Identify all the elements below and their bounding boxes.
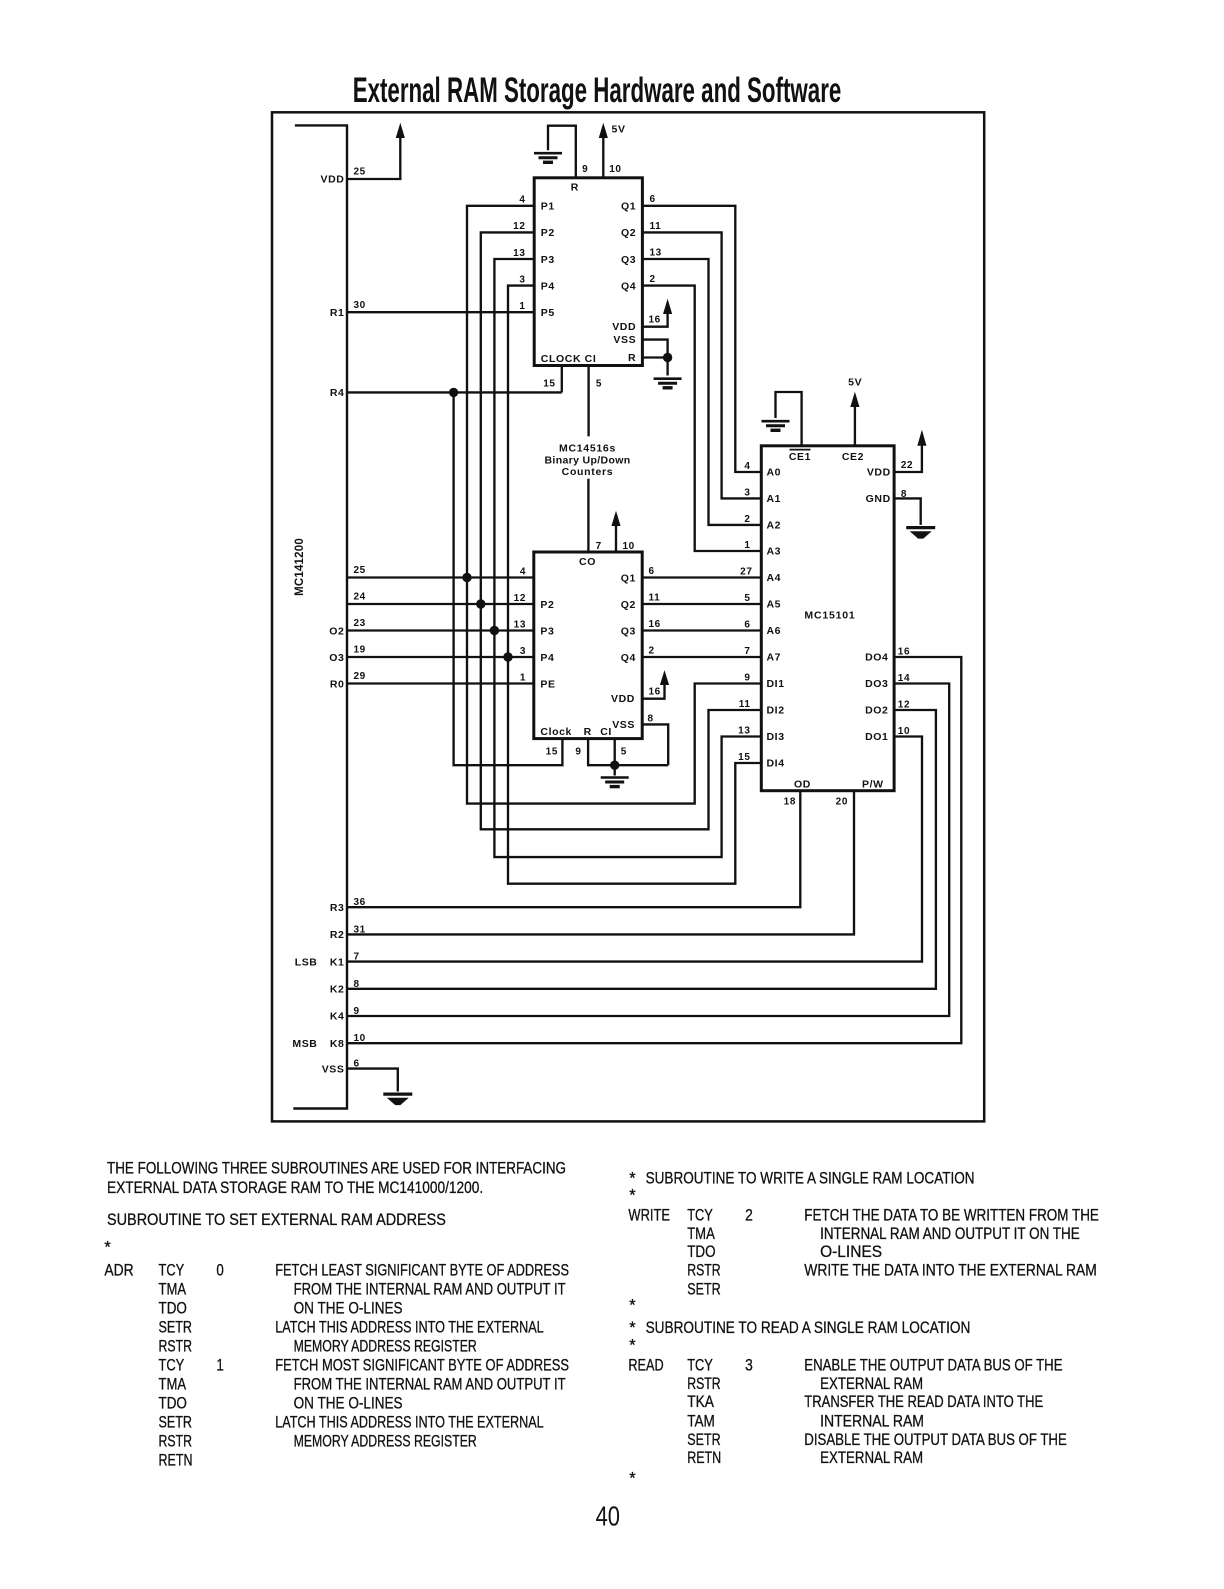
U1 bottom pin numbers 15 5 — [543, 379, 602, 390]
ground at U1 R/VSS — [654, 379, 682, 388]
svg-text:13: 13 — [650, 247, 662, 258]
svg-text:6: 6 — [744, 620, 750, 631]
wire U3 DO4 to K8 rail — [347, 657, 961, 1043]
VSS rail pin 6 to ground — [347, 1069, 398, 1092]
U3 VDD pin 22 wire — [894, 445, 922, 472]
junction O-line at rail — [503, 652, 512, 661]
svg-text:CE1: CE1 — [789, 451, 811, 463]
U1 VSS wire to ground node — [642, 340, 667, 358]
VDD rail from MCU pin 25 — [347, 138, 400, 180]
svg-text:SUBROUTINE TO WRITE A SINGLE R: SUBROUTINE TO WRITE A SINGLE RAM LOCATIO… — [646, 1169, 975, 1187]
svg-text:P3: P3 — [540, 625, 554, 637]
svg-text:4: 4 — [744, 461, 750, 472]
svg-text:CO: CO — [579, 556, 596, 568]
U3 CE1 wire to ground — [776, 392, 802, 446]
svg-text:K1: K1 — [330, 956, 345, 968]
svg-text:A0: A0 — [767, 467, 782, 479]
wire U1 Q3 to U3 A2 — [642, 259, 761, 525]
svg-text:11: 11 — [650, 221, 662, 232]
svg-text:29: 29 — [354, 671, 366, 682]
svg-text:8: 8 — [354, 979, 360, 990]
svg-text:READ: READ — [628, 1357, 663, 1375]
wire U3 DO3 to K4 rail — [347, 684, 949, 1017]
svg-text:TDO: TDO — [687, 1243, 715, 1261]
svg-text:16: 16 — [649, 619, 661, 630]
svg-text:1: 1 — [520, 672, 526, 683]
svg-text:20: 20 — [836, 796, 848, 807]
svg-text:THE FOLLOWING THREE SUBROUTINE: THE FOLLOWING THREE SUBROUTINES ARE USED… — [107, 1160, 566, 1178]
svg-text:A6: A6 — [767, 625, 782, 637]
U1 pin labels — [541, 181, 636, 365]
svg-text:7: 7 — [744, 646, 750, 657]
svg-text:DO2: DO2 — [865, 705, 888, 717]
svg-text:O-LINES: O-LINES — [820, 1243, 882, 1261]
svg-text:11: 11 — [739, 699, 751, 710]
U3 pin labels — [767, 450, 891, 791]
svg-text:19: 19 — [354, 645, 366, 656]
U2 VDD pin 16 wire — [642, 685, 664, 699]
svg-text:VDD: VDD — [321, 174, 345, 186]
R4 branch to U2 clock pin 15 — [454, 392, 563, 765]
net O-line 23: U1 P3 / U2 P3 / U3 DI3 — [494, 259, 761, 857]
svg-text:12: 12 — [514, 593, 526, 604]
svg-text:TMA: TMA — [159, 1376, 187, 1394]
junction R4 clock branch — [449, 388, 458, 397]
wire U1 clock pin 15 to R4 rail — [561, 366, 563, 393]
svg-text:EXTERNAL RAM: EXTERNAL RAM — [820, 1375, 923, 1393]
svg-text:TCY: TCY — [159, 1262, 185, 1280]
5V arrow at U2 pin 10 — [612, 513, 620, 526]
svg-text:TDO: TDO — [159, 1395, 187, 1413]
svg-text:EXTERNAL RAM: EXTERNAL RAM — [820, 1449, 923, 1467]
svg-text:10: 10 — [609, 164, 621, 175]
svg-text:A7: A7 — [767, 652, 782, 664]
wire U2 Q3 to U3 A6 — [642, 629, 761, 631]
VDD arrow at MCU pin 25 — [396, 125, 404, 138]
wire U3 DO1 to K1 rail — [347, 737, 922, 962]
svg-text:18: 18 — [784, 796, 796, 807]
svg-text:Binary Up/Down: Binary Up/Down — [545, 454, 631, 466]
wire U1 Q4 to U3 A3 — [642, 286, 761, 551]
MCU MC141200 port bracket — [293, 125, 347, 1108]
svg-text:23: 23 — [354, 618, 366, 629]
U1 reset pin 9 wire to ground — [548, 126, 576, 178]
svg-text:16: 16 — [649, 687, 661, 698]
svg-text:Q2: Q2 — [621, 227, 636, 239]
svg-text:*: * — [629, 1169, 636, 1187]
svg-text:13: 13 — [738, 726, 750, 737]
svg-text:MC141200: MC141200 — [294, 538, 306, 596]
label K2 pin 8 — [330, 979, 360, 996]
svg-text:9: 9 — [575, 746, 581, 757]
svg-text:15: 15 — [543, 379, 555, 390]
svg-text:FROM THE INTERNAL RAM AND OUTP: FROM THE INTERNAL RAM AND OUTPUT IT — [294, 1281, 566, 1299]
U3 top/bottom pin numbers 22 8 18 20 — [784, 460, 914, 807]
svg-text:16: 16 — [649, 315, 661, 326]
svg-text:MSB: MSB — [292, 1038, 317, 1050]
svg-text:SUBROUTINE TO SET EXTERNAL RAM: SUBROUTINE TO SET EXTERNAL RAM ADDRESS — [107, 1211, 446, 1229]
svg-text:27: 27 — [740, 567, 752, 578]
svg-text:5V: 5V — [848, 377, 862, 389]
svg-text:Counters: Counters — [562, 466, 614, 478]
schematic outer border frame — [272, 112, 984, 1121]
svg-text:2: 2 — [744, 514, 750, 525]
svg-text:9: 9 — [354, 1006, 360, 1017]
U2 R pin 9 and ground bus — [588, 739, 668, 766]
software listing text — [104, 1160, 1099, 1488]
svg-text:SETR: SETR — [159, 1414, 193, 1432]
svg-text:DI4: DI4 — [767, 758, 785, 770]
svg-text:13: 13 — [514, 619, 526, 630]
svg-text:R4: R4 — [330, 387, 345, 399]
svg-text:RSTR: RSTR — [159, 1433, 193, 1451]
svg-text:RSTR: RSTR — [159, 1338, 193, 1356]
label R2 pin 31 — [330, 924, 366, 941]
label K4 pin 9 — [330, 1006, 360, 1023]
svg-text:R2: R2 — [330, 929, 345, 941]
svg-text:8: 8 — [648, 714, 654, 725]
svg-text:INTERNAL RAM: INTERNAL RAM — [820, 1412, 924, 1430]
ground at U2 — [601, 778, 629, 787]
svg-text:RETN: RETN — [687, 1449, 721, 1467]
svg-text:EXTERNAL DATA STORAGE RAM TO T: EXTERNAL DATA STORAGE RAM TO THE MC14100… — [107, 1179, 483, 1197]
svg-text:ADR: ADR — [104, 1262, 133, 1280]
svg-text:4: 4 — [520, 566, 526, 577]
U2 pin labels — [540, 556, 636, 738]
svg-text:Q3: Q3 — [621, 254, 636, 266]
svg-text:RSTR: RSTR — [687, 1375, 721, 1393]
svg-text:PE: PE — [540, 678, 555, 690]
svg-text:VSS: VSS — [612, 719, 635, 731]
svg-text:*: * — [629, 1336, 636, 1354]
label R3 pin 36 — [330, 897, 366, 914]
svg-text:Clock: Clock — [540, 726, 572, 738]
svg-text:DI2: DI2 — [767, 705, 785, 717]
O-line rail pin 29 (R0) — [347, 682, 534, 684]
svg-text:24: 24 — [354, 592, 366, 603]
svg-text:CI: CI — [600, 726, 612, 738]
svg-text:*: * — [104, 1239, 111, 1257]
5V arrow at U3 CE2 — [851, 394, 859, 407]
svg-text:K8: K8 — [330, 1038, 345, 1050]
wire U1 Q1 to U3 A0 — [642, 206, 761, 472]
svg-text:1: 1 — [519, 301, 525, 312]
junction O-line at rail — [490, 626, 499, 635]
svg-text:5: 5 — [596, 379, 602, 390]
svg-text:O2: O2 — [329, 625, 344, 637]
svg-text:MC14516s: MC14516s — [559, 443, 616, 455]
svg-text:VDD: VDD — [867, 467, 891, 479]
svg-text:GND: GND — [866, 493, 891, 505]
U3 address pin numbers 4 3 2 1 27 5 6 7 — [740, 461, 752, 657]
svg-text:7: 7 — [354, 952, 360, 963]
wire U1 CI pin 5 down to counters note — [587, 366, 589, 437]
svg-text:A4: A4 — [767, 572, 782, 584]
label LSB K1 pin 7 — [295, 952, 360, 969]
svg-text:OD: OD — [794, 779, 811, 791]
net O-line 24: U1 P2 / U2 P2 / U3 DI2 — [481, 232, 762, 829]
svg-text:R0: R0 — [330, 678, 345, 690]
U1 VDD pin 16 wire — [642, 314, 667, 327]
svg-text:VDD: VDD — [611, 693, 635, 705]
svg-text:SUBROUTINE TO READ A SINGLE RA: SUBROUTINE TO READ A SINGLE RAM LOCATION — [646, 1319, 971, 1337]
svg-text:15: 15 — [738, 752, 750, 763]
svg-text:DO1: DO1 — [865, 731, 888, 743]
svg-text:25: 25 — [354, 167, 366, 178]
svg-text:LSB: LSB — [295, 956, 318, 968]
svg-text:*: * — [629, 1319, 636, 1337]
U2 CI pin 5 wire to ground — [614, 739, 616, 776]
svg-text:TDO: TDO — [159, 1300, 187, 1318]
svg-text:7: 7 — [596, 541, 602, 552]
svg-text:A3: A3 — [767, 546, 782, 558]
svg-text:VDD: VDD — [612, 321, 636, 333]
svg-text:FROM THE INTERNAL RAM AND OUTP: FROM THE INTERNAL RAM AND OUTPUT IT — [294, 1376, 566, 1394]
O-line rail pin 24 — [347, 603, 534, 605]
svg-text:6: 6 — [354, 1059, 360, 1070]
svg-text:5: 5 — [744, 593, 750, 604]
ground at U3 GND — [906, 528, 935, 539]
svg-text:Q4: Q4 — [621, 652, 636, 664]
RAM U3 MC15101 body — [761, 446, 894, 791]
U1 right pin numbers 6 11 13 2 — [650, 194, 662, 285]
svg-text:TCY: TCY — [159, 1357, 185, 1375]
svg-text:A2: A2 — [767, 520, 782, 532]
R4 clock rail — [347, 391, 562, 393]
wire U3 OD pin 18 to R3 rail — [347, 791, 800, 908]
svg-text:Q1: Q1 — [621, 572, 636, 584]
O-line rail pin 23 (O2) — [347, 629, 534, 631]
svg-text:DO3: DO3 — [865, 678, 888, 690]
svg-text:*: * — [629, 1186, 636, 1204]
svg-text:TAM: TAM — [687, 1412, 715, 1430]
R1 rail to U1 P5 — [347, 311, 534, 313]
label MSB K8 pin 10 — [292, 1033, 365, 1050]
svg-text:13: 13 — [513, 248, 525, 259]
VDD arrow at U2 pin 16 — [661, 672, 669, 685]
junction U2 CI/ground — [610, 761, 619, 770]
svg-text:TMA: TMA — [687, 1225, 715, 1243]
svg-text:WRITE: WRITE — [628, 1207, 670, 1225]
svg-text:12: 12 — [513, 221, 525, 232]
svg-text:K2: K2 — [330, 984, 345, 996]
svg-text:TKA: TKA — [687, 1393, 714, 1411]
svg-text:15: 15 — [546, 746, 558, 757]
net O-line 25: U1 P1 / U2 P1 / U3 DI1 — [467, 206, 761, 804]
svg-text:10: 10 — [354, 1033, 366, 1044]
svg-text:Q3: Q3 — [621, 625, 636, 637]
wire U3 P/W pin 20 to R2 rail — [347, 791, 854, 935]
svg-text:FETCH MOST SIGNIFICANT BYTE OF: FETCH MOST SIGNIFICANT BYTE OF ADDRESS — [275, 1357, 569, 1375]
U3 data-in pin numbers 9 11 13 15 — [738, 673, 750, 764]
svg-text:30: 30 — [354, 300, 366, 311]
U1 left pin numbers 4 12 13 3 1 — [513, 195, 525, 312]
counter U1 MC14516 body — [534, 178, 642, 366]
wire U1 Q2 to U3 A1 — [642, 232, 761, 498]
svg-text:VSS: VSS — [322, 1063, 345, 1075]
svg-text:5V: 5V — [612, 124, 626, 136]
O-line rail pin 19 (O3) — [347, 656, 534, 658]
svg-text:2: 2 — [745, 1207, 753, 1225]
svg-text:FETCH THE DATA TO BE WRITTEN F: FETCH THE DATA TO BE WRITTEN FROM THE — [804, 1207, 1099, 1225]
svg-text:K4: K4 — [330, 1011, 345, 1023]
svg-text:31: 31 — [354, 924, 366, 935]
svg-text:2: 2 — [650, 274, 656, 285]
svg-text:ENABLE THE OUTPUT DATA BUS OF: ENABLE THE OUTPUT DATA BUS OF THE — [804, 1357, 1062, 1375]
svg-text:DI1: DI1 — [767, 678, 785, 690]
svg-text:DI3: DI3 — [767, 731, 785, 743]
svg-text:11: 11 — [649, 592, 661, 603]
svg-text:SETR: SETR — [159, 1319, 193, 1337]
svg-text:DO4: DO4 — [865, 652, 888, 664]
U1 top pin numbers 9 10 — [582, 164, 621, 175]
svg-text:P3: P3 — [541, 254, 555, 266]
svg-text:CE2: CE2 — [842, 451, 864, 463]
svg-text:3: 3 — [519, 274, 525, 285]
svg-text:22: 22 — [901, 460, 913, 471]
U2 top pin numbers 7 10 — [596, 541, 635, 552]
ground at U3 CE1 — [762, 421, 790, 430]
U2 carry-in 5V arrow pin 10 — [615, 526, 617, 553]
svg-text:3: 3 — [520, 646, 526, 657]
svg-text:P/W: P/W — [862, 779, 884, 791]
svg-text:P4: P4 — [541, 280, 555, 292]
svg-text:WRITE THE DATA INTO THE EXTERN: WRITE THE DATA INTO THE EXTERNAL RAM — [804, 1261, 1097, 1279]
svg-text:*: * — [629, 1297, 636, 1315]
svg-text:2: 2 — [649, 645, 655, 656]
junction O-line at rail — [476, 599, 485, 608]
svg-text:9: 9 — [744, 673, 750, 684]
svg-text:ON THE O-LINES: ON THE O-LINES — [294, 1300, 403, 1318]
svg-text:6: 6 — [649, 566, 655, 577]
svg-text:TCY: TCY — [687, 1357, 713, 1375]
svg-text:*: * — [629, 1469, 636, 1487]
svg-text:9: 9 — [582, 164, 588, 175]
svg-text:SETR: SETR — [687, 1280, 721, 1298]
svg-text:SETR: SETR — [687, 1431, 721, 1449]
junction O-line at rail — [462, 573, 471, 582]
wire U2 Q2 to U3 A5 — [642, 603, 761, 605]
svg-text:Q2: Q2 — [621, 599, 636, 611]
U1 R pin wire to ground node — [642, 358, 667, 376]
svg-text:TMA: TMA — [159, 1281, 187, 1299]
svg-text:RETN: RETN — [159, 1452, 193, 1470]
svg-text:DISABLE THE OUTPUT DATA BUS OF: DISABLE THE OUTPUT DATA BUS OF THE — [804, 1431, 1067, 1449]
svg-text:A5: A5 — [767, 599, 782, 611]
wire U2 Q1 to U3 A4 — [642, 576, 761, 578]
svg-text:R: R — [571, 181, 579, 193]
svg-text:Q1: Q1 — [621, 201, 636, 213]
svg-text:TRANSFER THE READ DATA INTO TH: TRANSFER THE READ DATA INTO THE — [804, 1393, 1043, 1411]
svg-text:External RAM Storage Hardware: External RAM Storage Hardware and Softwa… — [353, 71, 842, 110]
svg-text:P2: P2 — [540, 599, 554, 611]
svg-text:1: 1 — [744, 540, 750, 551]
svg-text:P5: P5 — [541, 307, 555, 319]
svg-text:R: R — [628, 352, 636, 364]
svg-text:1: 1 — [216, 1357, 223, 1375]
svg-text:P1: P1 — [541, 201, 555, 213]
note text MC14516s Binary Up/Down Counters — [545, 443, 631, 479]
svg-text:ON THE O-LINES: ON THE O-LINES — [294, 1395, 403, 1413]
svg-text:25: 25 — [354, 565, 366, 576]
svg-text:LATCH THIS ADDRESS INTO THE EX: LATCH THIS ADDRESS INTO THE EXTERNAL — [275, 1414, 544, 1432]
ground at MCU VSS — [383, 1094, 412, 1105]
svg-text:R3: R3 — [330, 902, 345, 914]
svg-text:FETCH LEAST SIGNIFICANT BYTE O: FETCH LEAST SIGNIFICANT BYTE OF ADDRESS — [275, 1262, 569, 1280]
junction U1 VSS/R — [663, 353, 672, 362]
wire U2 Q4 to U3 A7 — [642, 656, 761, 658]
svg-text:4: 4 — [519, 195, 525, 206]
svg-text:O3: O3 — [329, 652, 344, 664]
wire note to U2 CO pin 7 — [587, 479, 589, 552]
counter U2 MC14516 body — [534, 552, 642, 739]
U3 GND pin 8 wire — [894, 498, 921, 525]
svg-text:RSTR: RSTR — [687, 1261, 721, 1279]
net O-line 19: U1 P4 / U2 P4 / U3 DI4 — [508, 286, 761, 884]
U1 pin 10 wire to 5V — [602, 138, 604, 178]
VDD arrow at U3 pin 22 — [918, 432, 926, 446]
svg-text:3: 3 — [744, 487, 750, 498]
svg-text:10: 10 — [623, 541, 635, 552]
svg-text:MEMORY ADDRESS REGISTER: MEMORY ADDRESS REGISTER — [294, 1338, 477, 1356]
svg-text:P2: P2 — [541, 227, 555, 239]
U2 right pin numbers 6 11 16 2 — [649, 566, 661, 657]
O-line rail pin 25 — [347, 576, 534, 578]
svg-text:40: 40 — [596, 1501, 620, 1532]
svg-text:INTERNAL RAM AND OUTPUT IT ON: INTERNAL RAM AND OUTPUT IT ON THE — [820, 1225, 1080, 1243]
svg-text:0: 0 — [216, 1262, 223, 1280]
svg-text:R1: R1 — [330, 307, 345, 319]
U2 left pin numbers 4 12 13 3 1 — [514, 566, 526, 683]
svg-text:6: 6 — [650, 194, 656, 205]
U2 VSS pin 8 wire — [642, 724, 668, 765]
svg-text:Q4: Q4 — [621, 280, 636, 292]
VDD arrow at U1 pin 16 — [664, 301, 672, 314]
svg-text:R: R — [584, 726, 592, 738]
ground at U1 pin 9 — [534, 153, 562, 162]
U2 bottom pin numbers 15 9 5 — [546, 746, 627, 757]
svg-text:LATCH THIS ADDRESS INTO THE EX: LATCH THIS ADDRESS INTO THE EXTERNAL — [275, 1319, 544, 1337]
svg-text:VSS: VSS — [613, 334, 636, 346]
U3 data-out pin numbers 16 14 12 10 — [898, 647, 910, 738]
svg-text:CLOCK CI: CLOCK CI — [541, 353, 597, 365]
wire U3 DO2 to K2 rail — [347, 710, 936, 989]
svg-text:TCY: TCY — [687, 1207, 713, 1225]
svg-text:A1: A1 — [767, 493, 782, 505]
svg-text:MEMORY ADDRESS REGISTER: MEMORY ADDRESS REGISTER — [294, 1433, 477, 1451]
svg-text:MC15101: MC15101 — [804, 610, 855, 622]
svg-text:3: 3 — [745, 1357, 753, 1375]
svg-text:P4: P4 — [540, 652, 554, 664]
5V arrow at U1 pin 10 — [599, 125, 607, 138]
svg-text:36: 36 — [354, 897, 366, 908]
U3 CE2 wire to 5V — [854, 407, 856, 446]
svg-text:5: 5 — [621, 746, 627, 757]
